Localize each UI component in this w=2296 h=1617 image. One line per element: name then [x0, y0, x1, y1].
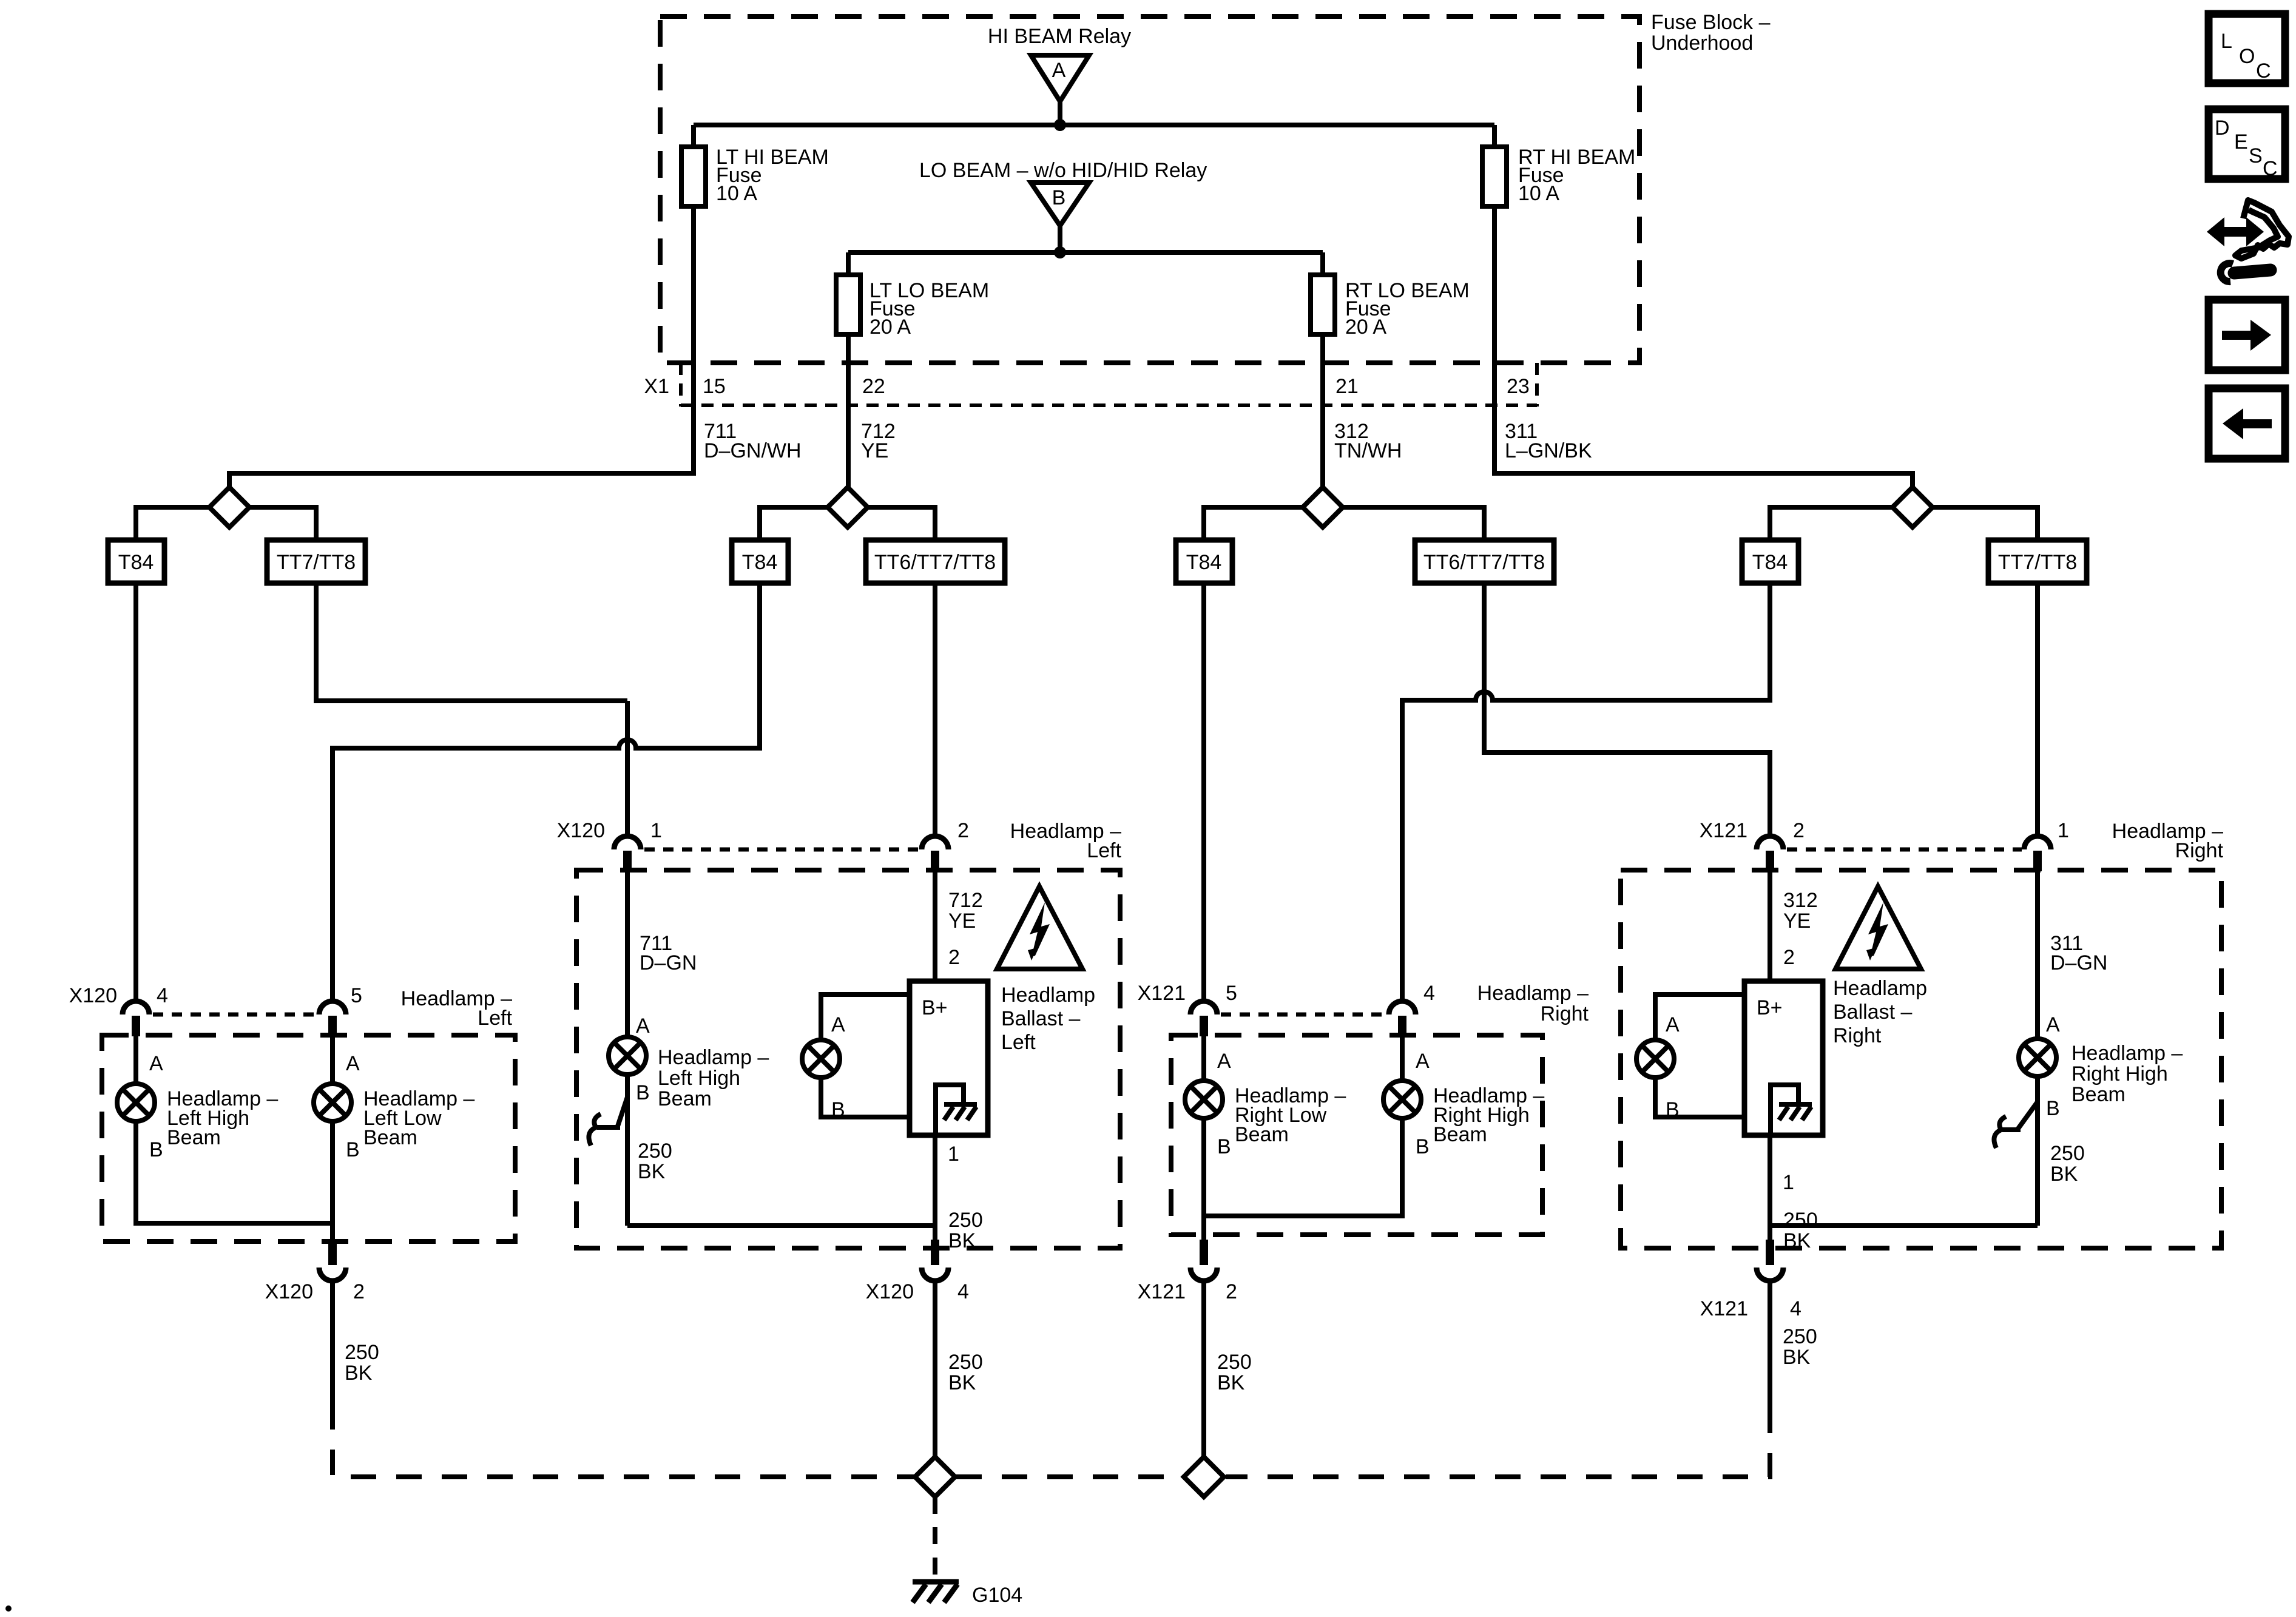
pigtail (shield drain)	[597, 1097, 627, 1127]
svg-text:2: 2	[1226, 1280, 1237, 1303]
svg-text:BK: BK	[1783, 1346, 1811, 1369]
page dot artifact	[5, 1605, 12, 1612]
junction dot HI rail	[1054, 119, 1066, 131]
bulb: Headlamp Right High Beam	[1383, 1081, 1421, 1118]
wire: left high beam B down and right	[136, 1121, 332, 1223]
D2S lamp loop to ballast	[821, 994, 910, 1040]
connector X120-2 (ballast feed) (cup + pin)	[922, 836, 948, 871]
svg-text:A: A	[2046, 1013, 2060, 1036]
svg-text:D–GN/WH: D–GN/WH	[704, 439, 802, 462]
svg-text:15: 15	[703, 375, 726, 398]
svg-text:712: 712	[948, 889, 983, 912]
svg-text:2: 2	[353, 1280, 365, 1303]
svg-text:312: 312	[1783, 889, 1818, 912]
svg-text:Fuse Block –: Fuse Block –	[1651, 11, 1771, 34]
svg-text:Left: Left	[1087, 839, 1121, 862]
svg-text:S: S	[2249, 144, 2263, 167]
svg-text:10 A: 10 A	[716, 182, 757, 205]
warning triangle (high voltage) right	[1835, 886, 1921, 969]
wire: T84 right2 down, left (hop over) to X121-4	[1402, 583, 1770, 1001]
svg-text:TN/WH: TN/WH	[1334, 439, 1402, 462]
svg-text:250: 250	[1217, 1351, 1252, 1374]
svg-text:B: B	[636, 1081, 650, 1104]
ballast internal ground	[1771, 1085, 1812, 1134]
svg-text:Right: Right	[1833, 1024, 1882, 1047]
svg-text:4: 4	[157, 984, 168, 1007]
svg-text:Beam: Beam	[1235, 1123, 1289, 1146]
legend pointer/tools icon	[2207, 200, 2289, 282]
svg-text:21: 21	[1335, 375, 1359, 398]
svg-text:250: 250	[948, 1209, 983, 1232]
legend DESC icon	[2209, 109, 2285, 180]
dashed ground run to bus	[1226, 1408, 1770, 1477]
headlamp left assembly box (non-HID, dashed)	[102, 1035, 515, 1241]
connector X1 bracket left	[679, 363, 683, 407]
svg-text:23: 23	[1507, 375, 1530, 398]
wire: X121-2 to ballast B+ (312 YE)	[1768, 870, 1772, 981]
wire: X121-1 to right high beam bulb (311 D-GN)	[2035, 870, 2040, 1039]
svg-text:B: B	[1416, 1135, 1430, 1158]
svg-text:L: L	[2221, 30, 2232, 53]
svg-text:4: 4	[1423, 982, 1435, 1005]
splice diamond S3 (312 lo beam right)	[1303, 487, 1343, 527]
svg-text:X121: X121	[1700, 819, 1747, 842]
headlamp right assembly box (HID, dashed)	[1621, 870, 2221, 1248]
connector row dashed line X120 1-2	[644, 848, 919, 852]
svg-text:20 A: 20 A	[869, 316, 911, 339]
svg-text:250: 250	[2050, 1142, 2085, 1165]
relay A triangle	[1031, 55, 1089, 101]
wire: TT7/TT8 left down and right to X120-1	[316, 583, 627, 701]
legend back arrow icon	[2209, 388, 2285, 459]
svg-text:1: 1	[650, 819, 662, 842]
svg-text:2: 2	[1793, 819, 1805, 842]
svg-text:LO BEAM – w/o HID/HID Relay: LO BEAM – w/o HID/HID Relay	[919, 159, 1207, 182]
svg-text:C: C	[2256, 59, 2271, 83]
svg-text:Headlamp: Headlamp	[1833, 977, 1927, 1000]
harness code box T84 (left hi, non-HID)	[108, 540, 164, 583]
wire: X120-1 to left high beam bulb (711 D-GN)	[625, 870, 630, 1037]
wire: X120-5 pin to left low beam bulb	[330, 1035, 335, 1084]
svg-text:A: A	[1217, 1050, 1231, 1073]
svg-text:B+: B+	[922, 996, 948, 1019]
ground splice diamond G (X121-2 wire)	[1184, 1457, 1224, 1497]
wire: LT HI fuse down to corner	[229, 206, 694, 489]
junction dot LO rail	[1054, 246, 1066, 258]
svg-text:B: B	[1217, 1135, 1231, 1158]
harness code box TT7/TT8 (right hi, HID)	[1988, 540, 2087, 583]
headlamp ballast right box	[1744, 981, 1823, 1135]
fuse RT LO BEAM 20A	[1311, 275, 1470, 339]
svg-text:T84: T84	[742, 551, 778, 574]
LO BEAM feed rail	[848, 250, 1323, 255]
ground symbol G104	[913, 1582, 959, 1602]
svg-text:1: 1	[2058, 819, 2069, 842]
svg-text:Beam: Beam	[2071, 1083, 2125, 1106]
svg-text:E: E	[2234, 130, 2248, 154]
svg-text:Underhood: Underhood	[1651, 32, 1753, 55]
svg-text:Beam: Beam	[167, 1126, 221, 1149]
wire 250 BK to ground splice	[1201, 1282, 1206, 1457]
headlamp ballast left box	[910, 981, 988, 1135]
svg-text:Left: Left	[1001, 1031, 1036, 1054]
svg-text:HI BEAM Relay: HI BEAM Relay	[988, 25, 1131, 48]
svg-text:2: 2	[957, 819, 969, 842]
svg-text:Beam: Beam	[363, 1126, 417, 1149]
headlamp left assembly box (HID, dashed)	[576, 870, 1120, 1248]
svg-text:A: A	[1666, 1013, 1680, 1036]
bulb: HID lamp right	[1636, 1040, 1674, 1078]
svg-text:Left: Left	[478, 1007, 512, 1030]
svg-text:B: B	[1052, 186, 1066, 209]
svg-text:TT6/TT7/TT8: TT6/TT7/TT8	[874, 551, 996, 574]
svg-text:250: 250	[948, 1351, 983, 1374]
svg-text:D–GN: D–GN	[2050, 951, 2107, 974]
svg-text:Right: Right	[2175, 839, 2224, 862]
wire: X121-5 to right low beam bulb	[1201, 1035, 1206, 1081]
pigtail (shield drain) right	[2002, 1102, 2038, 1130]
HI BEAM feed rail	[694, 123, 1494, 127]
bulb: Headlamp Right High Beam (HID housing)	[2019, 1039, 2056, 1076]
wire: relay A to HI BEAM rail	[1058, 101, 1062, 125]
svg-text:Beam: Beam	[658, 1087, 712, 1110]
connector row dashed line X120 4-5	[153, 1013, 317, 1017]
svg-text:YE: YE	[861, 439, 888, 462]
wire: LT LO fuse down	[846, 334, 851, 489]
svg-text:5: 5	[351, 984, 362, 1007]
wire: RT HI fuse down to corner	[1494, 206, 1913, 489]
svg-text:B: B	[149, 1138, 163, 1161]
svg-text:X121: X121	[1700, 1297, 1748, 1320]
harness code box TT6/TT7/TT8 (left lo, HID)	[866, 540, 1005, 583]
svg-text:C: C	[2263, 157, 2278, 180]
D2S lamp loop to ballast	[1655, 994, 1744, 1040]
wire below bulb to junction	[625, 1075, 630, 1226]
wire: TT6/TT7/TT8 mid down to X120-2	[933, 583, 937, 834]
svg-text:A: A	[346, 1052, 360, 1075]
svg-text:BK: BK	[1783, 1229, 1811, 1252]
svg-text:BK: BK	[948, 1229, 976, 1252]
svg-text:2: 2	[1783, 946, 1795, 969]
connector X121-2 (ground out) (pin + cup)	[1190, 1240, 1217, 1281]
svg-text:X121: X121	[1138, 982, 1186, 1005]
wire: junction to ballast ground wire	[627, 1223, 935, 1228]
wire: ballast pin 1 down to junction	[1768, 1135, 1772, 1240]
fuse RT HI BEAM 10A	[1482, 146, 1635, 206]
svg-text:T84: T84	[1186, 551, 1222, 574]
svg-text:Headlamp: Headlamp	[1001, 984, 1095, 1007]
wire: TT7/TT8 right2 down to X121-1	[2035, 583, 2040, 834]
harness code box TT7/TT8 (left hi, HID)	[267, 540, 365, 583]
svg-text:Headlamp –: Headlamp –	[1477, 982, 1589, 1005]
wire: right high beam B down and left	[1204, 1118, 1402, 1216]
svg-text:A: A	[1416, 1050, 1430, 1073]
connector X1 bottom dashed line	[681, 403, 1537, 407]
legend LOC icon	[2209, 14, 2285, 83]
dashed ground run to bus	[333, 1404, 916, 1477]
connector row dashed line X121 5-4	[1221, 1013, 1386, 1017]
svg-text:TT6/TT7/TT8: TT6/TT7/TT8	[1423, 551, 1545, 574]
legend forward arrow icon	[2209, 300, 2285, 370]
svg-text:1: 1	[948, 1143, 959, 1166]
wire: rail to RT LO fuse	[1320, 252, 1325, 276]
connector X120-4 (ground out) (pin + cup)	[922, 1240, 948, 1281]
svg-text:Headlamp –: Headlamp –	[2071, 1042, 2183, 1065]
splice diamond S1 (711 hi beam left)	[209, 487, 249, 527]
svg-text:Right High: Right High	[2071, 1062, 2168, 1085]
wire 250 BK (right outer ground)	[1768, 1282, 1772, 1408]
svg-text:TT7/TT8: TT7/TT8	[277, 551, 356, 574]
svg-text:D: D	[2215, 116, 2230, 140]
connector X121-4 (ground out) (pin + cup)	[1757, 1240, 1783, 1281]
svg-text:G104: G104	[972, 1584, 1022, 1607]
wire 250 BK (left outer ground)	[330, 1282, 335, 1404]
connector X120-4 (cup + pin)	[123, 1001, 149, 1036]
svg-text:YE: YE	[948, 910, 976, 933]
splice diamond S2 (712 lo beam left)	[828, 487, 868, 527]
svg-text:B: B	[2046, 1097, 2060, 1120]
svg-text:X1: X1	[644, 375, 669, 398]
wire: T84 left down to X120-4	[133, 583, 138, 1001]
connector X121-1 (cup + pin)	[2024, 836, 2051, 871]
wire: X120-2 to ballast B+ (712 YE)	[933, 870, 937, 981]
svg-text:Left High: Left High	[658, 1067, 740, 1090]
svg-text:BK: BK	[345, 1362, 373, 1385]
svg-text:L–GN/BK: L–GN/BK	[1505, 439, 1592, 462]
svg-text:B: B	[346, 1138, 360, 1161]
svg-text:250: 250	[345, 1341, 379, 1364]
svg-text:22: 22	[862, 375, 885, 398]
warning triangle (high voltage) left	[997, 886, 1082, 969]
svg-text:250: 250	[638, 1139, 672, 1163]
svg-text:X120: X120	[69, 984, 117, 1007]
svg-text:B+: B+	[1757, 996, 1783, 1019]
svg-text:Beam: Beam	[1433, 1123, 1487, 1146]
svg-text:250: 250	[1783, 1325, 1817, 1348]
svg-text:TT7/TT8: TT7/TT8	[1998, 551, 2077, 574]
wire: TT6/TT7/TT8 right1 down, right to X121-2	[1484, 583, 1770, 834]
bulb: Headlamp Left Low Beam	[314, 1084, 351, 1121]
wire: T84 mid down, left (hop over) to X120-5	[333, 583, 760, 1001]
svg-text:BK: BK	[638, 1160, 666, 1183]
svg-text:Right: Right	[1541, 1002, 1589, 1025]
wire: RT LO fuse down	[1320, 334, 1325, 489]
junction wire to right high beam B	[1770, 1223, 2038, 1228]
wire: rail to LT HI fuse	[691, 125, 696, 148]
harness code box T84 (right lo, non-HID)	[1176, 540, 1232, 583]
svg-text:X121: X121	[1138, 1280, 1186, 1303]
bulb: HID lamp left	[802, 1040, 840, 1078]
branch rail wire (312)	[1204, 507, 1484, 540]
connector X121-5 (cup + pin)	[1190, 1001, 1217, 1036]
branch rail wire (712)	[760, 507, 935, 540]
wire: rail to RT HI fuse	[1492, 125, 1497, 148]
svg-text:2: 2	[948, 946, 960, 969]
svg-text:4: 4	[957, 1280, 969, 1303]
connector X121-2 (ballast feed) (cup + pin)	[1757, 836, 1783, 871]
svg-text:A: A	[149, 1052, 163, 1075]
connector X120-1 (cup + pin)	[614, 836, 641, 871]
svg-text:BK: BK	[1217, 1371, 1245, 1394]
svg-text:X120: X120	[866, 1280, 914, 1303]
svg-text:BK: BK	[2050, 1163, 2078, 1186]
branch rail wire (311)	[1770, 507, 2038, 540]
wire: right low beam B down to X121-2	[1201, 1118, 1206, 1240]
connector row dashed line X121 2-1	[1787, 848, 2022, 852]
wire: rail to LT LO fuse	[846, 252, 851, 276]
svg-text:Ballast –: Ballast –	[1001, 1007, 1080, 1030]
wire: relay B to LO rail	[1058, 226, 1062, 252]
harness code box T84 (left lo, non-HID)	[732, 540, 788, 583]
svg-text:T84: T84	[118, 551, 154, 574]
dashed drop to G104	[933, 1497, 937, 1578]
branch rail wire (711)	[136, 507, 316, 540]
svg-text:T84: T84	[1752, 551, 1788, 574]
fuse block underhood enclosure (dashed)	[660, 16, 1639, 363]
harness code box TT6/TT7/TT8 (right lo, HID)	[1415, 540, 1554, 583]
splice diamond S4 (311 hi beam right)	[1893, 487, 1933, 527]
wire below bulb to junction	[2035, 1076, 2040, 1226]
svg-text:20 A: 20 A	[1345, 316, 1386, 339]
ground splice diamond G (X120-4 wire)	[915, 1457, 955, 1497]
headlamp right assembly box (non-HID, dashed)	[1171, 1035, 1542, 1235]
wire: X120-4 pin to left high beam bulb	[133, 1035, 138, 1084]
svg-text:O: O	[2239, 45, 2255, 68]
wire: ballast pin 1 down	[933, 1135, 937, 1240]
bulb: Headlamp Left High Beam (HID housing)	[609, 1037, 646, 1075]
fuse LT HI BEAM 10A	[681, 146, 829, 206]
svg-text:A: A	[1052, 59, 1066, 82]
svg-text:D–GN: D–GN	[640, 951, 697, 974]
svg-text:250: 250	[1783, 1209, 1818, 1232]
svg-text:A: A	[831, 1013, 845, 1036]
bulb: Headlamp Left High Beam	[117, 1084, 155, 1121]
svg-text:BK: BK	[948, 1371, 976, 1394]
svg-text:A: A	[636, 1014, 650, 1038]
wire: X121-4 to right high beam bulb	[1400, 1035, 1405, 1081]
ballast internal ground	[936, 1085, 977, 1134]
ground bus dashed segment between splices	[956, 1474, 1183, 1479]
svg-text:Headlamp –: Headlamp –	[658, 1046, 769, 1069]
connector X1 bracket right	[1535, 363, 1539, 407]
harness code box T84 (right hi, non-HID)	[1742, 540, 1798, 583]
wire 250 BK to ground splice	[933, 1282, 937, 1457]
wire: left low beam B down to X120-2	[330, 1121, 335, 1240]
svg-text:10 A: 10 A	[1518, 182, 1559, 205]
svg-text:4: 4	[1790, 1297, 1801, 1320]
bulb: Headlamp Right Low Beam	[1185, 1081, 1223, 1118]
svg-text:1: 1	[1783, 1171, 1794, 1194]
connector X120-2 (ground out) (pin + cup)	[319, 1240, 346, 1281]
svg-text:X120: X120	[557, 819, 605, 842]
wire: T84 right1 down to X121-5	[1201, 583, 1206, 1001]
relay B triangle	[1031, 183, 1089, 226]
fuse LT LO BEAM 20A	[836, 275, 989, 339]
svg-text:Ballast –: Ballast –	[1833, 1001, 1912, 1024]
svg-text:YE: YE	[1783, 910, 1811, 933]
connector X120-5 (cup + pin)	[319, 1001, 346, 1036]
connector X121-4 (cup + pin)	[1389, 1001, 1416, 1036]
svg-text:5: 5	[1226, 982, 1237, 1005]
svg-text:X120: X120	[265, 1280, 313, 1303]
